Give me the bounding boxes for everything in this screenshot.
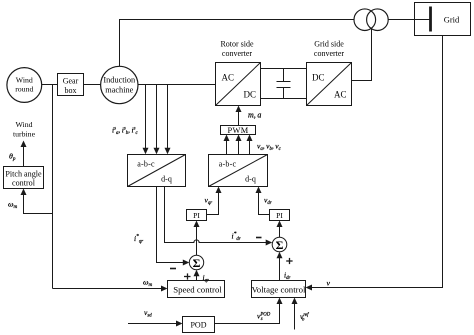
wire PI to dq-abc (v_dr) [256,187,270,215]
wire grid voltage feedback v [306,36,443,291]
abc label [219,160,237,169]
gear box label [63,77,79,96]
svg-text:Rotor side: Rotor side [220,40,254,49]
abc-dq block (stator measurement) [128,155,186,187]
plus sign at left sum [184,273,191,279]
wire left sum to PI [194,221,200,256]
wire grid side converter to transformer [352,28,372,81]
wire dc link top [261,68,307,70]
rotor side converter U1 [216,63,261,106]
wire i_q measured to left sum [157,187,190,266]
induction machine label [103,76,136,95]
svg-text:PI: PI [193,211,200,220]
svg-text:Wind: Wind [15,120,32,129]
wire PI to dq-abc (v_qr) [207,187,222,215]
grid bus bar [429,7,432,32]
wire PWM to rotor converter [236,106,242,126]
v_s^POD label [257,312,271,323]
voltage control block [252,281,306,298]
svg-text:Grid: Grid [444,15,460,25]
PWM block [221,126,256,135]
v label [327,279,331,288]
wire stator current tap c [165,85,171,155]
wire POD to voltage control [215,298,283,324]
svg-text:PWM: PWM [228,126,249,135]
wire transformer to grid bus [388,19,430,21]
minus sign at left sum [170,268,176,270]
i_qr label [203,273,209,284]
grid side converter AC label [334,90,347,100]
wire shaft gearbox to induction machine [84,84,101,86]
wire v_sd to POD [128,321,183,327]
svg-text:PI: PI [276,211,283,220]
svg-text:Wind: Wind [16,76,33,85]
wire machine top to grid bus [120,20,355,67]
svg-text:Induction: Induction [103,76,136,85]
omega_m label (speed control input) [143,278,153,289]
svg-text:converter: converter [314,49,345,58]
speed control block [168,281,225,298]
svg-text:round: round [15,85,33,94]
svg-text:POD: POD [190,321,206,330]
induction machine M1 [101,66,138,103]
svg-text:m, a: m, a [248,111,261,120]
svg-text:Gear: Gear [63,77,79,86]
dq label [161,175,172,184]
transformer T1 [354,9,388,31]
wind turbine label [13,120,36,139]
wire right sum to PI [277,221,283,238]
wire stator to rotor side converter [138,84,216,86]
svg-text:Voltage control: Voltage control [252,285,306,295]
svg-text:v: v [327,279,331,288]
dq label [245,175,256,184]
svg-text:machine: machine [105,86,133,95]
svg-text:turbine: turbine [13,130,36,139]
svg-text:Pitch angle: Pitch angle [5,170,42,179]
m,a label [248,111,261,120]
wire omega_m branch to pitch control [21,189,53,214]
wire theta_p pitch control output [21,141,27,167]
wire stator current tap b [154,85,160,155]
dq-abc block (rotor voltage) [209,155,268,187]
svg-text:AC: AC [222,73,235,83]
wire shaft rotor to gearbox [42,84,58,86]
svg-text:DC: DC [244,90,257,100]
i_qr* reference label [134,234,143,245]
wire dc link bottom [261,98,307,100]
i_dr* reference label [232,231,241,242]
grid side converter label [314,40,345,59]
rotor side converter DC label [244,90,257,100]
wire omega_m to speed control [53,286,168,292]
svg-text:Σ: Σ [276,238,284,252]
pitch angle control block [4,167,44,189]
plus sign at right sum [286,258,292,264]
v_sd label [144,308,152,319]
svg-text:d-q: d-q [161,175,172,184]
svg-text:box: box [65,86,77,95]
grid label [444,15,460,25]
summing junction S2 (d axis) [272,237,287,252]
summing junction S1 (q axis) [189,255,203,269]
svg-text:Speed control: Speed control [173,285,222,295]
theta_p label [9,152,16,163]
wire v_o^ref to voltage control [292,298,298,330]
wind rotor circle [7,68,42,103]
PI controller d axis [270,210,290,221]
v_a,v_b,v_c label [257,142,282,153]
svg-text:a-b-c: a-b-c [137,160,155,169]
stator currents label [112,126,138,137]
PI controller q axis [187,210,207,221]
omega_m label (pitch input) [8,200,18,211]
wire dq-abc to PWM b [236,135,242,155]
svg-text:AC: AC [334,90,347,100]
gear box G1 [58,74,84,96]
svg-text:Σ: Σ [193,256,201,270]
v_qr label [205,196,213,207]
v_o^ref label [300,312,309,323]
abc label [137,160,155,169]
minus sign at right sum [256,237,262,239]
wire stator current tap a [143,85,149,155]
POD block [183,317,215,333]
wire dq-abc to PWM c [247,135,253,155]
svg-text:Grid side: Grid side [314,40,344,49]
grid side converter U2 [307,63,352,106]
PWM label [228,126,249,135]
svg-text:DC: DC [312,73,325,83]
wire voltage control to right sum [277,252,283,281]
pitch angle control label [5,170,42,188]
capacitor C1 (dc link) [277,69,291,99]
wire i_d measured to right sum (with hop) [165,187,273,246]
svg-text:d-q: d-q [245,175,256,184]
rotor side converter label [220,40,254,59]
wire dq-abc to PWM a [224,135,230,155]
rotor side converter AC label [222,73,235,83]
wire speed sensing vertical from shaft [52,85,54,289]
v_dr label [264,196,272,207]
wind rotor label [15,76,33,94]
wire speed control to left sum [194,270,200,281]
i_dr label [284,271,290,282]
grid side converter DC label [312,73,325,83]
svg-text:control: control [12,179,36,188]
svg-text:converter: converter [222,49,253,58]
grid block [415,3,471,36]
svg-text:a-b-c: a-b-c [219,160,237,169]
